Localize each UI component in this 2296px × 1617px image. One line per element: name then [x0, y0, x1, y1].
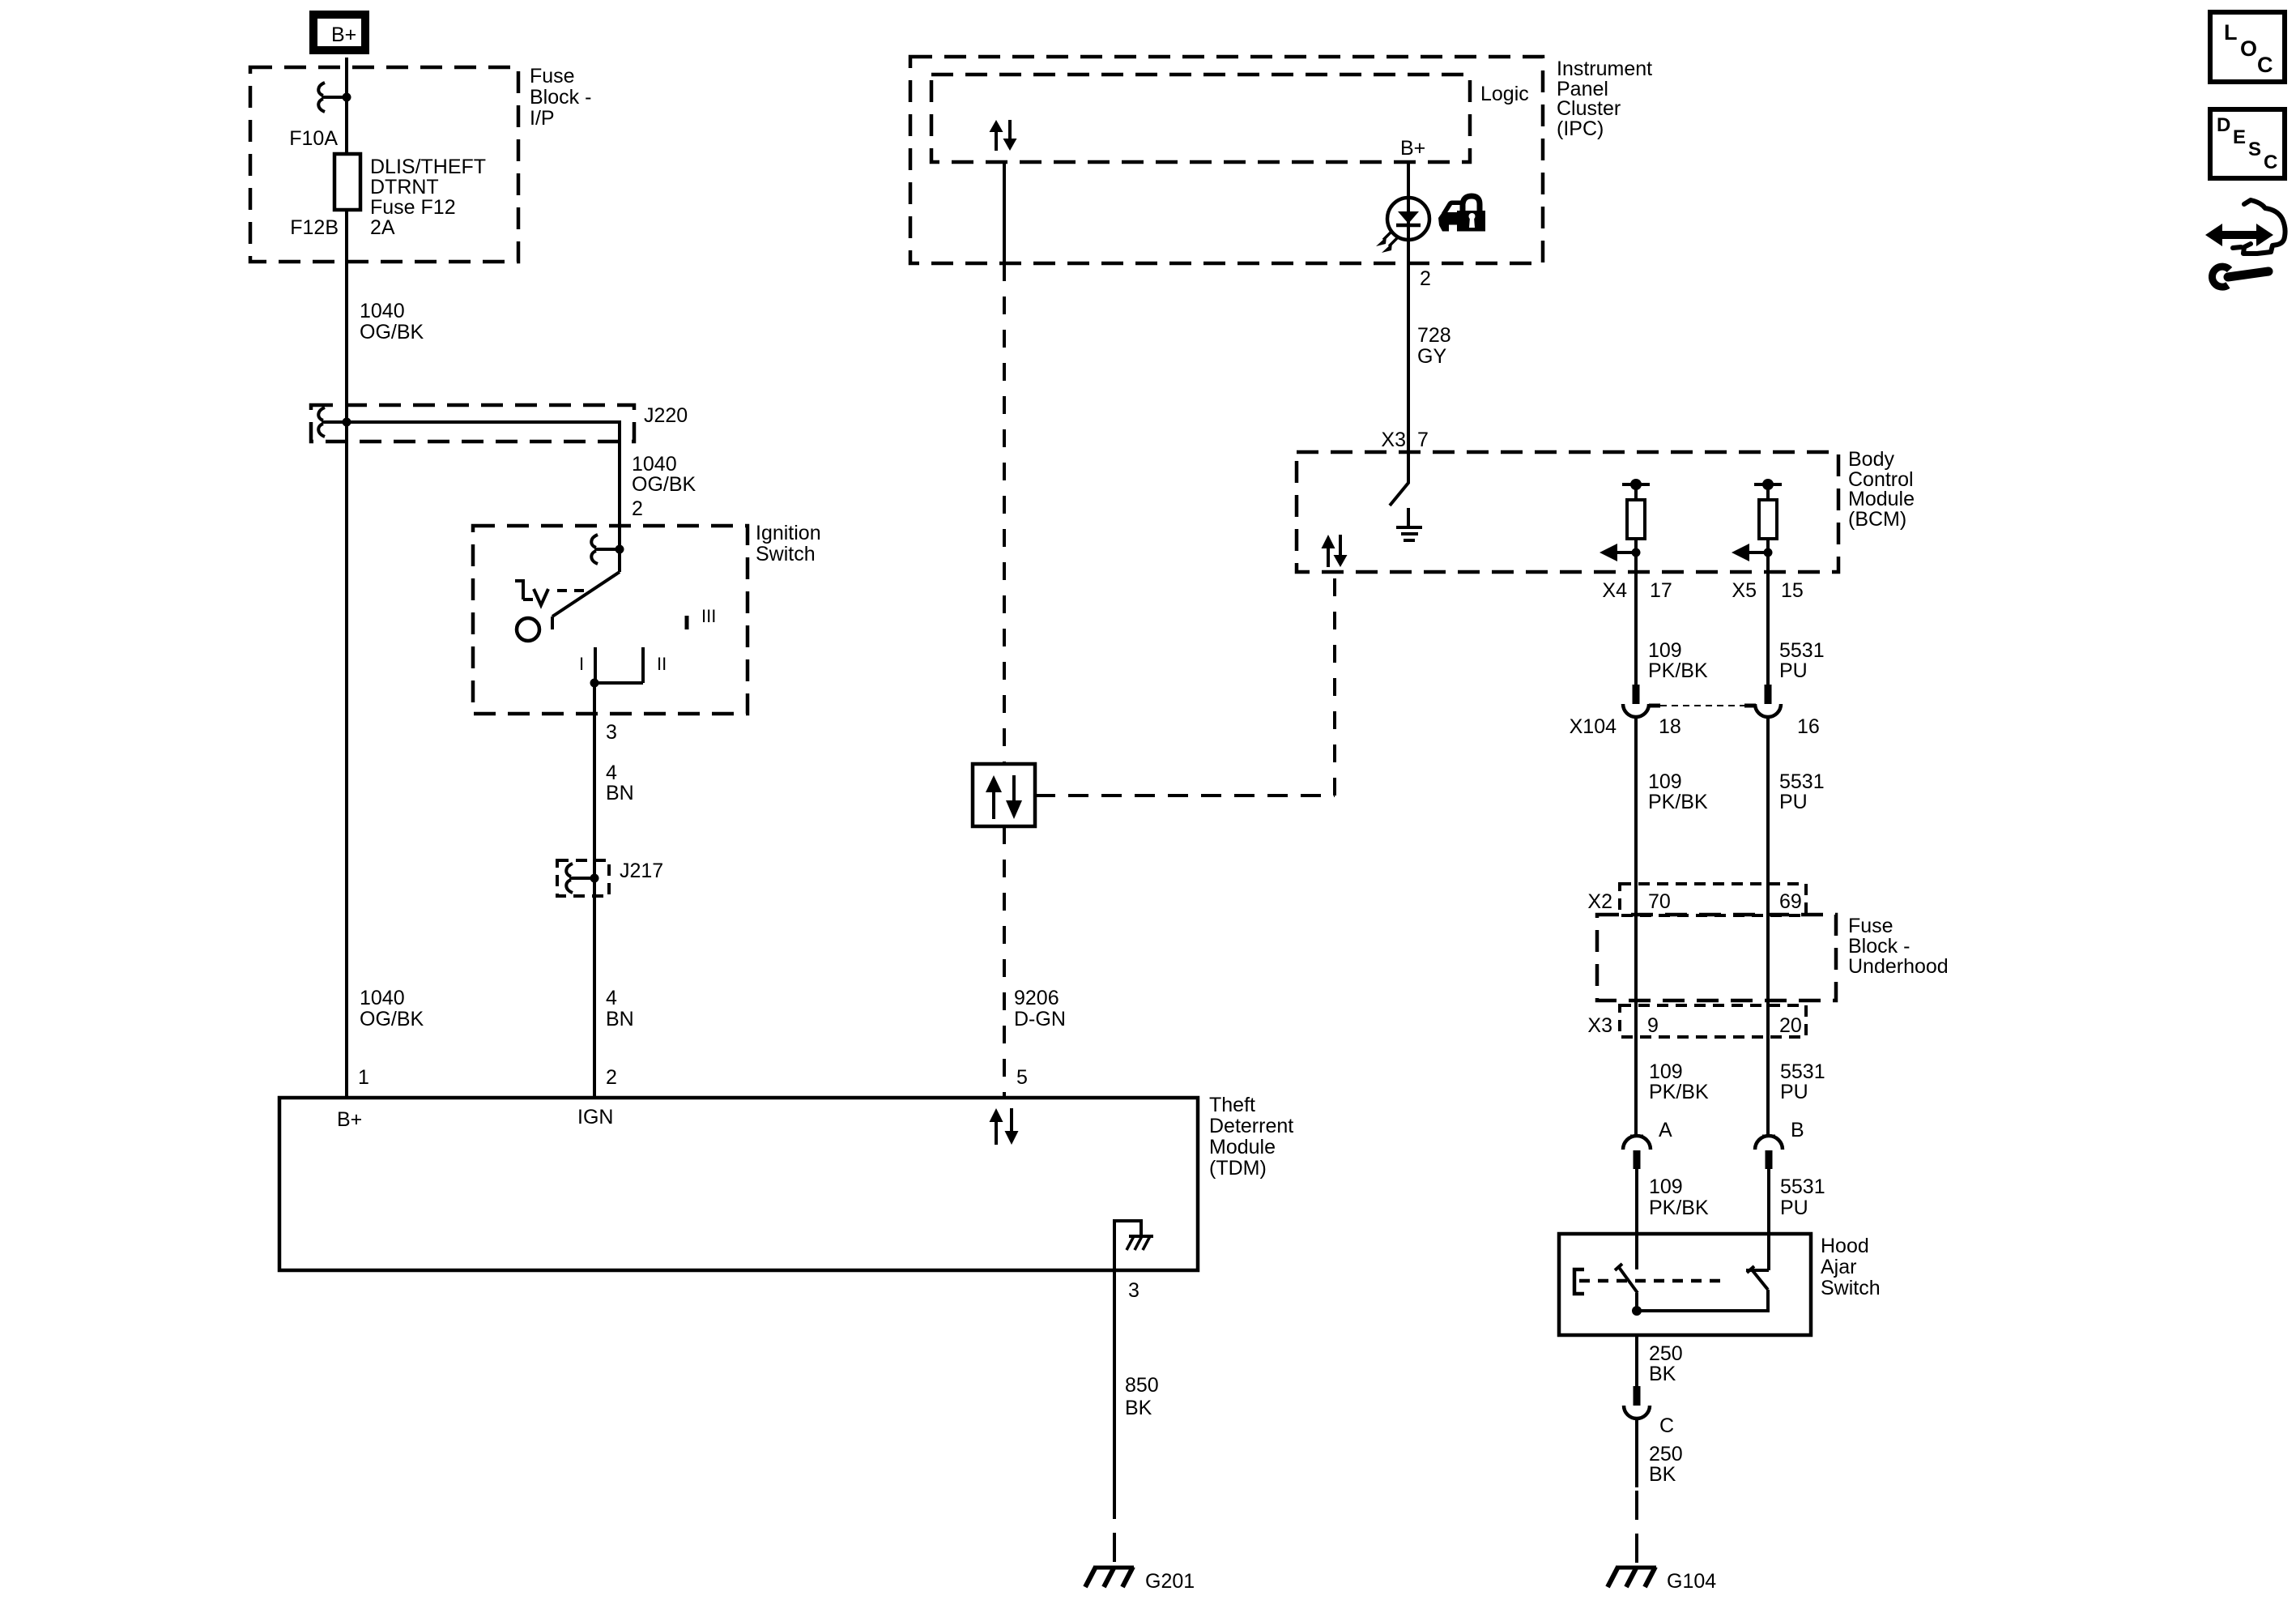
- svg-text:Hood: Hood: [1821, 1235, 1869, 1257]
- svg-text:69: 69: [1779, 890, 1802, 913]
- svg-text:2: 2: [1420, 267, 1431, 290]
- svg-text:G201: G201: [1145, 1570, 1195, 1593]
- svg-text:Deterrent: Deterrent: [1209, 1115, 1293, 1137]
- svg-text:BK: BK: [1125, 1397, 1152, 1419]
- svg-text:BK: BK: [1649, 1463, 1676, 1486]
- svg-text:250: 250: [1649, 1443, 1683, 1466]
- svg-text:3: 3: [606, 721, 617, 744]
- svg-text:2: 2: [606, 1066, 617, 1089]
- svg-text:Ajar: Ajar: [1821, 1256, 1856, 1278]
- svg-text:109: 109: [1648, 770, 1682, 793]
- svg-text:1040: 1040: [360, 987, 405, 1009]
- svg-text:(IPC): (IPC): [1557, 117, 1604, 140]
- svg-text:PU: PU: [1780, 1197, 1808, 1219]
- svg-text:BN: BN: [606, 782, 634, 804]
- svg-text:B+: B+: [1400, 137, 1425, 160]
- svg-text:C: C: [1659, 1414, 1674, 1437]
- svg-text:PK/BK: PK/BK: [1648, 791, 1708, 813]
- svg-text:(BCM): (BCM): [1848, 508, 1906, 531]
- svg-text:I: I: [579, 654, 584, 674]
- svg-text:X2: X2: [1587, 890, 1612, 913]
- svg-text:Underhood: Underhood: [1848, 955, 1949, 978]
- svg-text:B: B: [1791, 1119, 1804, 1141]
- svg-text:F12B: F12B: [290, 216, 339, 239]
- svg-text:PK/BK: PK/BK: [1649, 1197, 1709, 1219]
- svg-text:5531: 5531: [1779, 770, 1825, 793]
- svg-text:IGN: IGN: [577, 1106, 613, 1128]
- svg-text:5531: 5531: [1780, 1175, 1825, 1198]
- svg-text:17: 17: [1650, 579, 1672, 602]
- svg-text:Fuse: Fuse: [530, 65, 575, 87]
- svg-text:J217: J217: [620, 860, 663, 882]
- svg-text:109: 109: [1648, 639, 1682, 662]
- svg-text:F10A: F10A: [289, 127, 338, 150]
- svg-text:Switch: Switch: [1821, 1277, 1881, 1299]
- svg-text:O: O: [2240, 36, 2257, 61]
- svg-text:X3: X3: [1381, 429, 1406, 451]
- svg-text:C: C: [2257, 53, 2273, 77]
- svg-text:Instrument: Instrument: [1557, 58, 1652, 80]
- svg-text:PU: PU: [1780, 1081, 1808, 1103]
- svg-text:J220: J220: [644, 404, 688, 427]
- svg-text:728: 728: [1417, 324, 1451, 347]
- svg-text:D-GN: D-GN: [1014, 1008, 1066, 1030]
- svg-text:109: 109: [1649, 1060, 1683, 1083]
- svg-text:BK: BK: [1649, 1363, 1676, 1385]
- svg-text:III: III: [701, 606, 716, 626]
- svg-text:G104: G104: [1667, 1570, 1716, 1593]
- svg-text:Block -: Block -: [530, 86, 591, 109]
- svg-text:Fuse: Fuse: [1848, 915, 1893, 937]
- svg-text:Cluster: Cluster: [1557, 97, 1621, 120]
- svg-text:D: D: [2217, 114, 2230, 136]
- svg-text:B+: B+: [337, 1108, 362, 1131]
- svg-text:Logic: Logic: [1480, 83, 1529, 105]
- svg-text:109: 109: [1649, 1175, 1683, 1198]
- svg-text:OG/BK: OG/BK: [360, 321, 424, 343]
- svg-text:Body: Body: [1848, 448, 1894, 471]
- svg-text:250: 250: [1649, 1342, 1683, 1365]
- svg-text:PU: PU: [1779, 659, 1808, 682]
- svg-text:GY: GY: [1417, 345, 1446, 368]
- svg-text:X3: X3: [1587, 1014, 1612, 1037]
- svg-text:18: 18: [1659, 715, 1681, 738]
- svg-text:PK/BK: PK/BK: [1649, 1081, 1709, 1103]
- svg-text:B+: B+: [331, 23, 356, 46]
- svg-text:Theft: Theft: [1209, 1094, 1255, 1116]
- svg-text:PK/BK: PK/BK: [1648, 659, 1708, 682]
- svg-text:9: 9: [1647, 1014, 1659, 1037]
- svg-text:II: II: [657, 654, 667, 674]
- svg-text:PU: PU: [1779, 791, 1808, 813]
- svg-text:850: 850: [1125, 1374, 1159, 1397]
- svg-text:OG/BK: OG/BK: [360, 1008, 424, 1030]
- svg-text:I/P: I/P: [530, 107, 555, 130]
- svg-text:A: A: [1659, 1119, 1672, 1141]
- svg-text:X4: X4: [1602, 579, 1627, 602]
- svg-text:Switch: Switch: [756, 543, 816, 565]
- svg-text:1040: 1040: [360, 300, 405, 322]
- svg-text:Module: Module: [1209, 1136, 1276, 1158]
- svg-text:5531: 5531: [1780, 1060, 1825, 1083]
- svg-text:20: 20: [1779, 1014, 1802, 1037]
- svg-text:1: 1: [358, 1066, 369, 1089]
- svg-text:X104: X104: [1570, 715, 1617, 738]
- svg-text:4: 4: [606, 987, 617, 1009]
- svg-text:Block -: Block -: [1848, 935, 1910, 958]
- svg-text:3: 3: [1128, 1279, 1139, 1302]
- svg-text:S: S: [2248, 139, 2261, 160]
- svg-text:2: 2: [632, 497, 643, 520]
- svg-text:2A: 2A: [370, 216, 395, 239]
- svg-text:DLIS/THEFT: DLIS/THEFT: [370, 156, 486, 178]
- svg-text:E: E: [2233, 126, 2246, 148]
- svg-text:5: 5: [1016, 1066, 1028, 1089]
- svg-text:9206: 9206: [1014, 987, 1059, 1009]
- svg-text:BN: BN: [606, 1008, 634, 1030]
- svg-text:L: L: [2224, 20, 2238, 45]
- svg-text:Fuse F12: Fuse F12: [370, 196, 456, 219]
- svg-text:7: 7: [1417, 429, 1429, 451]
- svg-text:DTRNT: DTRNT: [370, 176, 439, 198]
- svg-text:16: 16: [1797, 715, 1820, 738]
- svg-text:15: 15: [1781, 579, 1804, 602]
- svg-text:4: 4: [606, 762, 617, 784]
- svg-text:5531: 5531: [1779, 639, 1825, 662]
- svg-text:(TDM): (TDM): [1209, 1157, 1267, 1180]
- svg-text:OG/BK: OG/BK: [632, 473, 696, 496]
- svg-text:1040: 1040: [632, 453, 677, 476]
- svg-text:Ignition: Ignition: [756, 522, 821, 544]
- svg-text:70: 70: [1648, 890, 1671, 913]
- svg-text:X5: X5: [1732, 579, 1757, 602]
- svg-text:C: C: [2264, 151, 2277, 173]
- svg-text:Module: Module: [1848, 488, 1915, 510]
